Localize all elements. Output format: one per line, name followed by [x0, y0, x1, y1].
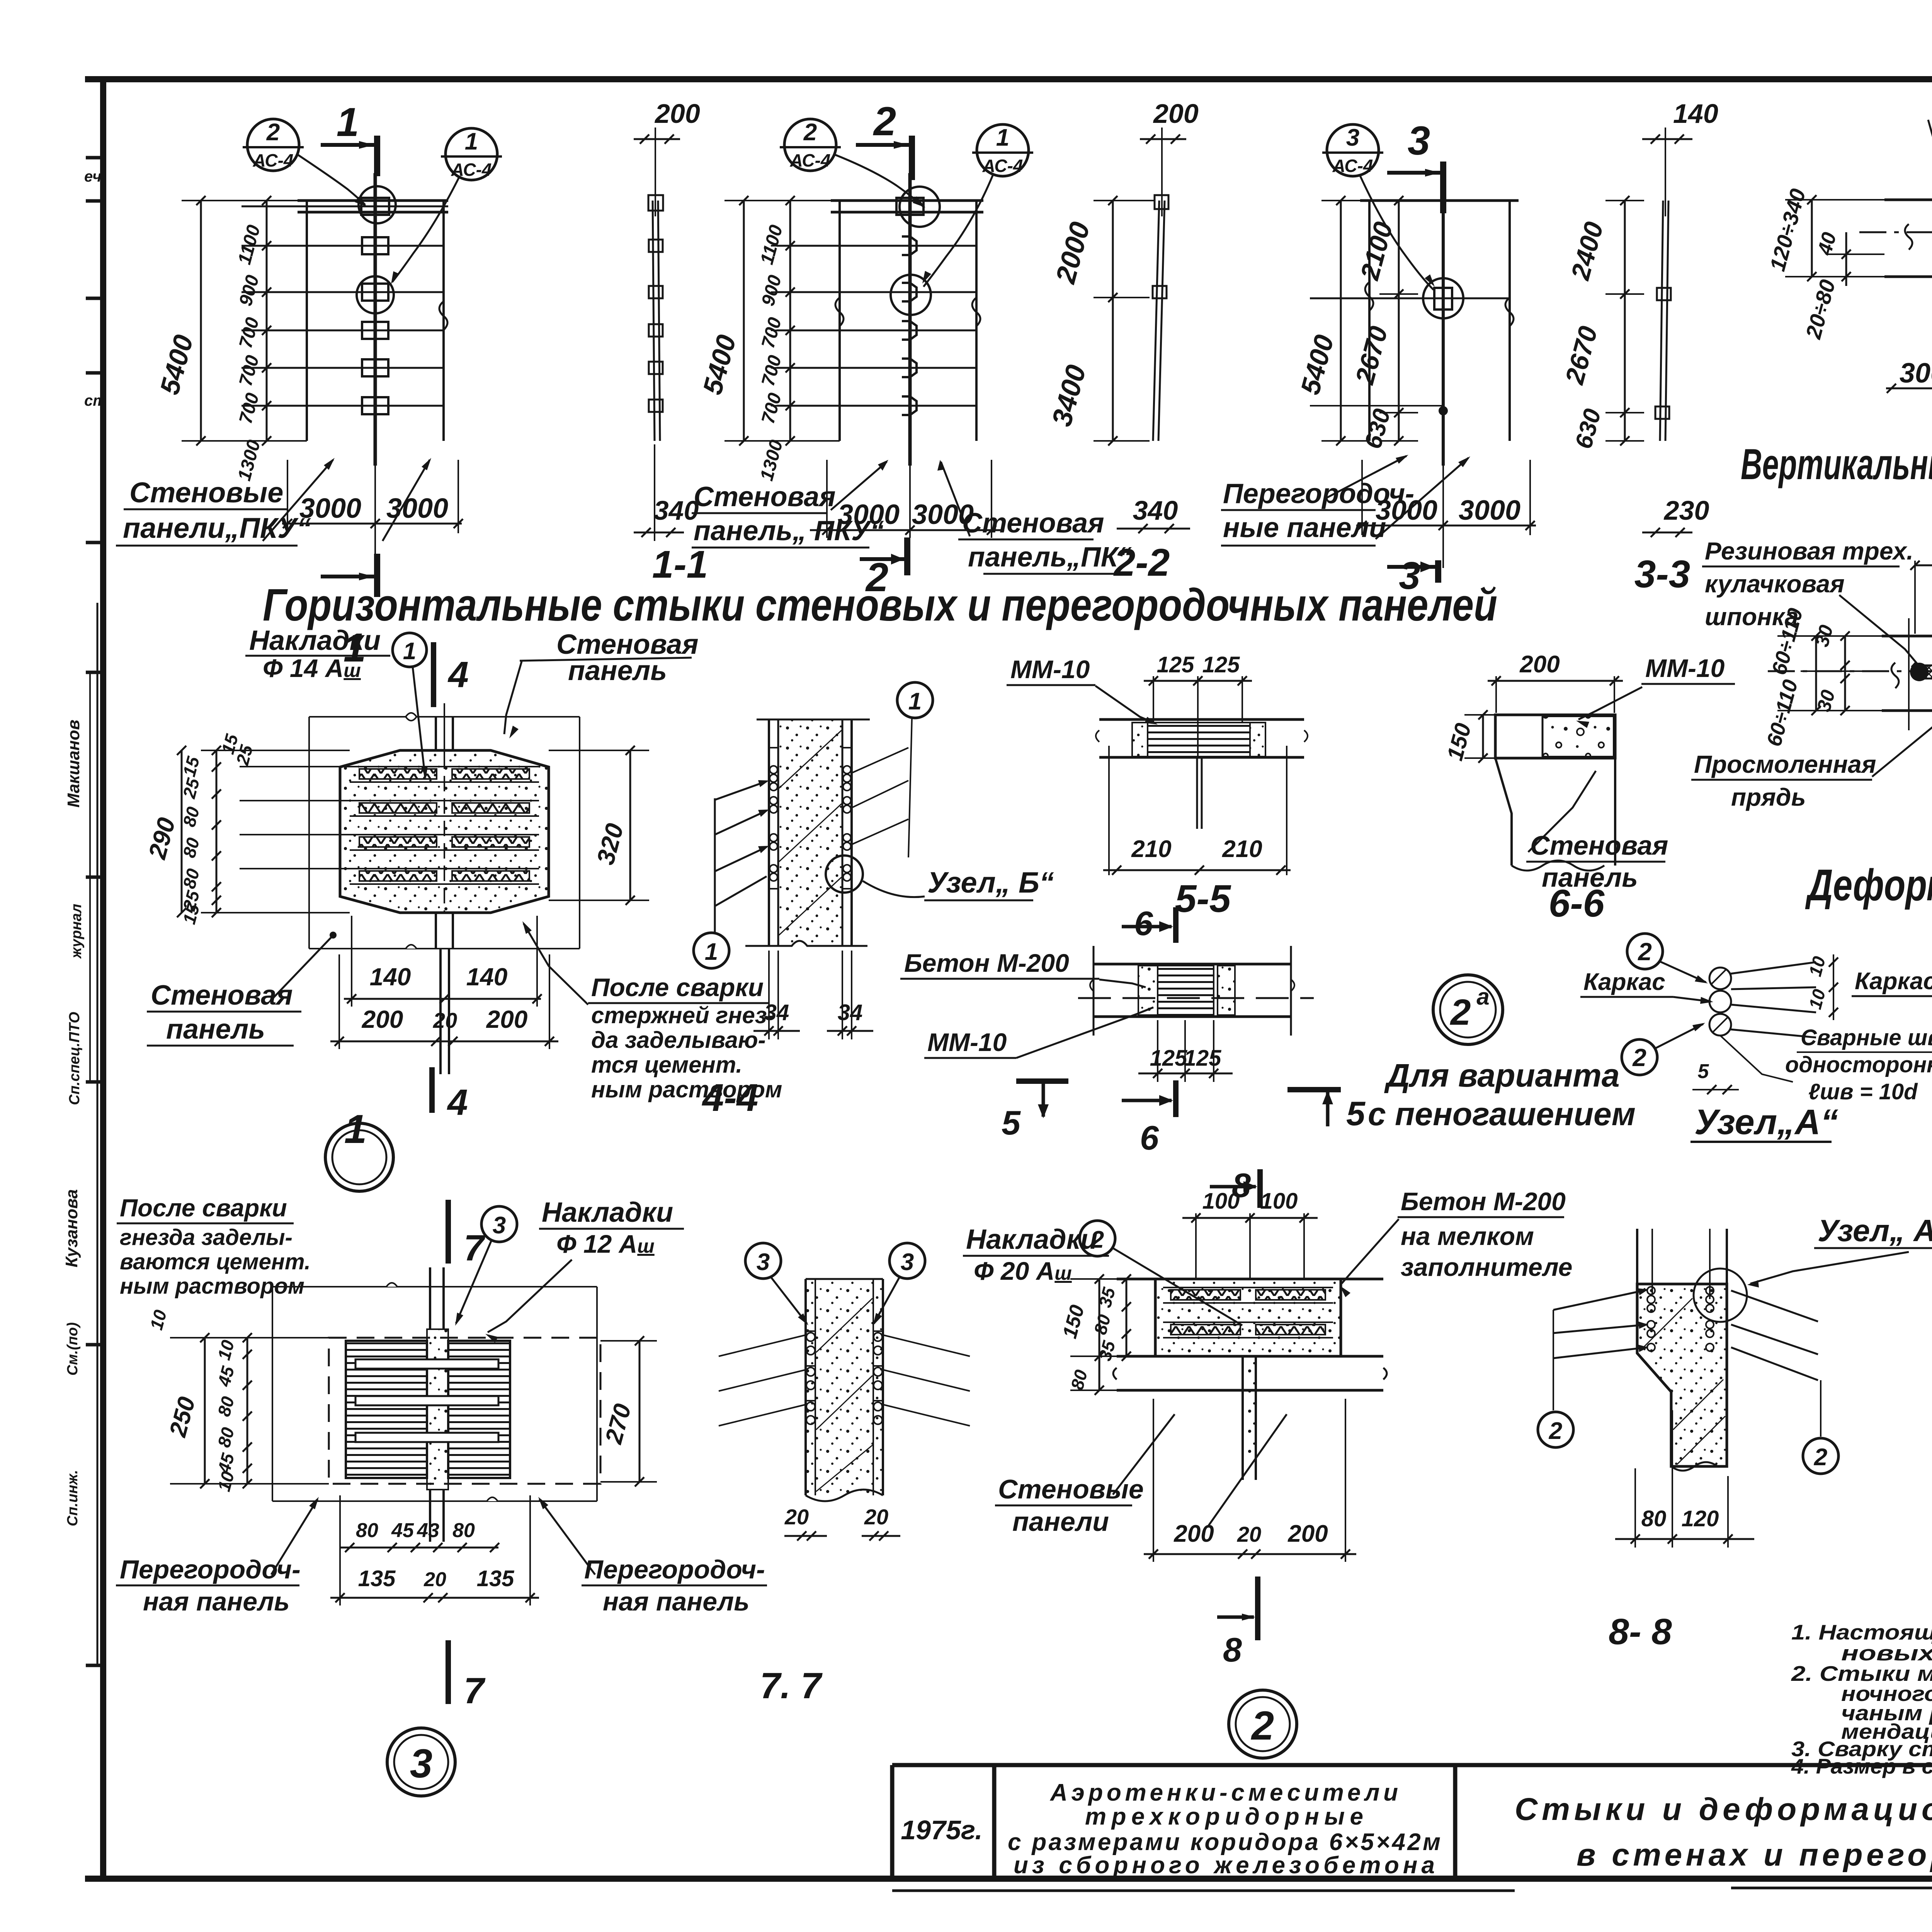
svg-text:АС-4: АС-4 [789, 150, 830, 170]
break squiggle deformation band [1891, 663, 1899, 688]
svg-text:135: 135 [358, 1566, 396, 1591]
svg-text:панель„ ПКУ“: панель„ ПКУ“ [694, 515, 884, 546]
rebar bars detail 3 [355, 1359, 498, 1369]
circled number 2 detail 2 [1229, 1690, 1297, 1758]
svg-text:1: 1 [403, 638, 416, 665]
dimension 135 20 135 detail 3 [330, 1495, 539, 1605]
svg-text:1: 1 [465, 128, 478, 155]
label partition panel left detail 3 [116, 1497, 319, 1616]
note after welding text detail 1 [522, 921, 782, 1102]
dimension 340 bottom section 2-2 [1117, 495, 1190, 533]
svg-text:1: 1 [705, 939, 718, 965]
svg-text:210: 210 [1222, 836, 1262, 862]
svg-text:ММ-10: ММ-10 [927, 1028, 1007, 1056]
dimension 250 deformation joint [1910, 529, 1932, 634]
svg-text:20: 20 [784, 1505, 809, 1529]
rebar circles, node A [1709, 968, 1731, 989]
svg-text:125: 125 [1184, 1046, 1222, 1071]
svg-text:125: 125 [1202, 652, 1240, 677]
detail circle at top joint [359, 186, 396, 223]
detail circle at second joint [357, 276, 394, 313]
section mark 7 top detail 3 [448, 1200, 486, 1269]
svg-text:Сп.спец.ПТО: Сп.спец.ПТО [66, 1012, 83, 1105]
svg-text:Вертикальные стыки стеновых и: Вертикальные стыки стеновых и перегородо… [1741, 440, 1932, 488]
notes list [1791, 1620, 1932, 1778]
svg-text:3: 3 [493, 1212, 506, 1239]
label Nakladki F14AIII [245, 625, 390, 682]
detail 6-6 partition joint plan [1495, 715, 1615, 871]
svg-text:135: 135 [477, 1566, 515, 1591]
svg-text:Стеновая: Стеновая [962, 508, 1104, 539]
hatched panel block detail 3 [346, 1329, 510, 1490]
svg-text:200: 200 [1153, 99, 1199, 129]
callout 2 left section 8-8 [1538, 1412, 1573, 1447]
svg-text:ММ-10: ММ-10 [1645, 654, 1725, 682]
svg-text:2: 2 [1251, 1703, 1274, 1748]
section 4-4 concrete strip [745, 719, 870, 946]
section mark 2 bottom [860, 537, 907, 600]
label tarred strand [1691, 698, 1932, 811]
dimension 125 125 plan [1138, 1020, 1233, 1082]
concrete M-200 joint plan [1078, 946, 1314, 1036]
svg-text:2: 2 [803, 119, 817, 146]
svg-text:ные панели: ные панели [1223, 512, 1386, 543]
dimension 290 detail 1 [181, 750, 183, 913]
dimension 340 bottom of section 1-1 [634, 444, 699, 541]
svg-text:5: 5 [1698, 1060, 1709, 1083]
section mark 5 left [1002, 1081, 1068, 1142]
dimension ladder 2100/2670/630 elevation 3 [1350, 196, 1418, 452]
svg-text:1. Настоящий чертеж рассматри: 1. Настоящий чертеж рассматривать совмес… [1791, 1620, 1932, 1644]
dimension 210 210 detail 5-5 [1103, 836, 1291, 875]
svg-text:20: 20 [423, 1568, 446, 1591]
section mark 5 right [1287, 1090, 1366, 1133]
svg-text:еч: еч [84, 168, 102, 185]
leader fans section 7-7 [719, 1335, 970, 1426]
svg-text:5: 5 [1002, 1104, 1021, 1142]
svg-text:8- 8: 8- 8 [1609, 1611, 1672, 1652]
detail circle second joint elevation 2 [891, 275, 931, 315]
svg-text:3: 3 [1399, 554, 1420, 597]
callout circle 2 lower, node A [1622, 1039, 1657, 1075]
dimension 3000+3000 elevation 3 [1356, 460, 1536, 568]
svg-text:кулачковая: кулачковая [1705, 570, 1845, 598]
deformation joint detail [1768, 618, 1932, 789]
dimension ladder 1300/700/700/700/900/1100, elevation 1 [234, 196, 286, 483]
dimension 3000+3000 elevation 2 [810, 460, 1004, 538]
upper joint neck detail 3 [429, 1267, 431, 1329]
detail circle top joint elevation 2 [900, 187, 940, 227]
break squiggle band left [1905, 224, 1912, 250]
svg-text:140: 140 [370, 963, 411, 991]
left stamp column rule [97, 603, 99, 1665]
svg-text:34: 34 [838, 1000, 863, 1025]
section mark 1 bottom [374, 554, 380, 597]
svg-text:20: 20 [864, 1505, 888, 1529]
svg-text:2: 2 [873, 99, 896, 144]
vertical joint detail 2 [1243, 1356, 1256, 1461]
section 1-1 strip [648, 195, 663, 441]
svg-text:45: 45 [391, 1519, 414, 1542]
break squiggle elevation 2 [835, 298, 844, 326]
svg-text:Накладки: Накладки [966, 1224, 1097, 1255]
svg-text:a: a [1476, 984, 1489, 1010]
left dimension ladder detail 1 [143, 731, 350, 926]
leader fan left section 4-4 [715, 780, 769, 932]
svg-text:АС-4: АС-4 [1332, 156, 1373, 176]
dimension 80 120 section 8-8 [1615, 1410, 1754, 1548]
svg-text:1-1: 1-1 [652, 543, 708, 586]
section mark 1 top [374, 136, 380, 176]
dimension ladder 2400/2670/630 section 3-3 [1560, 196, 1644, 452]
svg-text:Перегородоч-: Перегородоч- [1223, 478, 1414, 509]
svg-text:с размерами коридора 6×5×42м: с размерами коридора 6×5×42м [1008, 1829, 1440, 1855]
left dimension ladder detail 3 [146, 1308, 329, 1493]
svg-text:панели: панели [1012, 1507, 1109, 1537]
section mark 4 top detail 1 [434, 642, 469, 707]
callout circle 1 detail 1 [393, 633, 428, 779]
svg-text:Узел„А“: Узел„А“ [1694, 1102, 1838, 1142]
svg-text:тся цемент.: тся цемент. [591, 1052, 742, 1078]
svg-text:Перегородоч-: Перегородоч- [584, 1555, 765, 1584]
note after welding detail 3 [117, 1194, 311, 1299]
break squiggle right edge [439, 301, 447, 330]
panel joint keys elevation 2 [902, 236, 917, 255]
label wall panel top detail 1 [504, 629, 699, 738]
svg-text:2: 2 [1090, 1226, 1104, 1253]
label MM-10 plan [924, 1007, 1153, 1058]
svg-text:140: 140 [466, 963, 508, 991]
svg-text:3000: 3000 [1900, 358, 1932, 389]
dimensions 30/60-110 deformation joint [1762, 606, 1882, 749]
svg-text:односторонние: односторонние [1785, 1052, 1932, 1077]
weld plates on centerline, elevation 1 [362, 237, 388, 254]
leader fans section 8-8 [1553, 1288, 1821, 1437]
svg-text:80: 80 [1641, 1506, 1667, 1531]
svg-text:АС-4: АС-4 [982, 156, 1023, 176]
callout circle 3 top detail 3 [455, 1206, 517, 1326]
svg-text:ная панель: ная панель [603, 1587, 750, 1616]
svg-text:7. 7: 7. 7 [760, 1665, 823, 1706]
callout 3 right section 7-7 [873, 1243, 925, 1326]
left dims detail 2 [1058, 1274, 1155, 1395]
uzel A circle marker section 8-8 [1694, 1213, 1932, 1322]
section mark 7 bottom detail 3 [448, 1640, 486, 1711]
section 3-3 strip [1655, 201, 1671, 441]
svg-text:с пеногашением: с пеногашением [1368, 1096, 1636, 1132]
svg-text:6: 6 [1140, 1119, 1159, 1157]
dimension 200 20 200 detail 1 [330, 954, 558, 1049]
dimension 320 detail 1 [549, 746, 649, 905]
svg-text:34: 34 [764, 1000, 789, 1025]
label rubber three-lug waterstop [1702, 537, 1923, 671]
dimension 125 125 detail 5-5 [1144, 652, 1252, 757]
dimension 140 140 detail 1 [344, 916, 542, 1007]
svg-text:4-4: 4-4 [702, 1076, 759, 1119]
svg-text:2: 2 [865, 555, 888, 600]
callout circle 3/AC-4 elevation 3 [1322, 124, 1435, 290]
svg-text:АС-4: АС-4 [252, 150, 293, 170]
dimension ladder elevation 2 [757, 196, 810, 483]
svg-text:Кузанова: Кузанова [62, 1189, 81, 1267]
svg-text:340: 340 [1133, 495, 1178, 526]
svg-text:гнезда заделы-: гнезда заделы- [120, 1225, 293, 1250]
svg-text:ная панель: ная панель [143, 1587, 290, 1616]
joint plate elevation 3 [1434, 288, 1452, 310]
node B detail [1852, 931, 1932, 1142]
section mark 3 bottom [1435, 560, 1441, 583]
uzel B circle and label on section 4-4 [826, 855, 1054, 900]
svg-text:125: 125 [1150, 1046, 1188, 1071]
vertical joint detail, wall panels [1859, 195, 1932, 392]
lower joint neck detail 1 [435, 913, 437, 949]
svg-text:панель„ПК“: панель„ПК“ [968, 542, 1132, 573]
node A detail [1580, 934, 1932, 1142]
svg-text:3-3: 3-3 [1634, 553, 1690, 596]
dimension 2000/3400 ladder section 2-2 [1046, 196, 1155, 446]
panel elevation 1 (wall panels PKU) [241, 173, 448, 466]
svg-text:журнал: журнал [68, 904, 85, 959]
left stamp column [62, 168, 107, 1526]
detail 5-5 mortar joint plan [1096, 719, 1308, 875]
dimension 100 100 detail 2 [1182, 1189, 1318, 1279]
svg-text:2: 2 [266, 119, 280, 146]
lower joint neck detail 3 [429, 1490, 431, 1542]
panel elevation 3 (partition panels) [1310, 173, 1519, 466]
svg-text:1: 1 [908, 688, 922, 715]
label wall panels PKU [116, 458, 431, 546]
svg-text:Деформационные швы в стенах и: Деформационные швы в стенах и перегородк… [1805, 861, 1932, 910]
svg-text:Стеновая: Стеновая [1530, 830, 1668, 861]
circled number 1 detail 1 [325, 1107, 393, 1191]
svg-text:80: 80 [356, 1519, 378, 1542]
dimension 200 top section 2-2 [1140, 99, 1199, 216]
dimension 140 top section 3-3 [1642, 99, 1718, 216]
svg-text:200: 200 [654, 99, 700, 129]
svg-text:из сборного железобетона: из сборного железобетона [1014, 1852, 1435, 1879]
label MM-10 detail 6-6 [1576, 654, 1735, 728]
svg-text:Резиновая трех.: Резиновая трех. [1705, 537, 1913, 565]
svg-text:Макшанов: Макшанов [64, 719, 83, 808]
dimension 200 20 200 detail 2 [1144, 1399, 1356, 1562]
svg-text:3: 3 [1408, 118, 1430, 163]
outer thin lines detail 3 [272, 1283, 597, 1501]
svg-text:5: 5 [1346, 1094, 1366, 1133]
svg-text:См.(по): См.(по) [65, 1322, 81, 1376]
svg-text:Бетон М-200: Бетон М-200 [1401, 1187, 1566, 1216]
svg-text:прядь: прядь [1731, 783, 1806, 811]
dimension 5400 elevation 3 [1295, 196, 1369, 446]
svg-text:Накладки: Накладки [249, 625, 381, 656]
svg-text:Для варианта: Для варианта [1384, 1057, 1620, 1094]
svg-text:4: 4 [447, 654, 469, 695]
svg-text:Бетон М-200: Бетон М-200 [904, 949, 1069, 977]
svg-text:После сварки: После сварки [591, 973, 764, 1002]
section 2-2 strip [1153, 195, 1168, 441]
svg-text:120: 120 [1682, 1506, 1719, 1531]
dimension 150 detail 6-6 [1442, 710, 1495, 763]
svg-text:Каркас: Каркас [1855, 968, 1932, 995]
svg-text:2: 2 [1450, 992, 1471, 1033]
label wall panels, vertical joints [1928, 81, 1932, 198]
section mark 6 bottom [1122, 1080, 1176, 1157]
svg-text:210: 210 [1131, 836, 1171, 862]
label wall panel detail 6-6 [1526, 771, 1668, 893]
label MM-10 detail 5-5 [1007, 655, 1158, 724]
svg-text:20: 20 [433, 1008, 457, 1032]
panel elevation 2 (wall panels PKU + PK) [777, 173, 983, 466]
svg-text:125: 125 [1157, 652, 1195, 677]
label for foam variant [1368, 1057, 1636, 1132]
rebar circles section 4-4 [770, 766, 777, 774]
callout circle 2/AC-4 elevation 2 [780, 119, 925, 207]
section mark 8 top [1210, 1166, 1260, 1208]
svg-text:2: 2 [1638, 938, 1652, 966]
label partition panels elevation 3 [1221, 455, 1470, 546]
svg-text:Стеновые: Стеновые [998, 1474, 1144, 1504]
svg-text:Стеновые: Стеновые [129, 476, 283, 509]
label wall panel PK elevation 2 [937, 460, 1132, 574]
label wall panel bottom detail 1 [147, 932, 337, 1046]
svg-text:6: 6 [1134, 904, 1153, 942]
callout circle 2 upper, node A [1627, 934, 1663, 969]
svg-text:100: 100 [1260, 1189, 1298, 1214]
dimensions left of wall joint [1765, 186, 1884, 342]
svg-text:3000: 3000 [1459, 495, 1520, 526]
svg-text:200: 200 [1519, 651, 1560, 678]
dimension 20 20 section 7-7 [784, 1505, 900, 1541]
svg-text:Сп.инж.: Сп.инж. [65, 1470, 81, 1526]
title block [892, 1765, 1932, 1891]
callout 1 top right section 4-4 [852, 682, 933, 857]
label Nakladki F20AIII detail 2 [963, 1221, 1242, 1325]
svg-text:Узел„ А“: Узел„ А“ [1818, 1213, 1932, 1248]
upper panel tongue [435, 717, 437, 750]
section mark 4 bottom detail 1 [432, 1067, 468, 1123]
callout circle 1/AC-4 elevation 2 [922, 124, 1033, 287]
svg-text:8: 8 [1223, 1631, 1242, 1669]
svg-text:Накладки: Накладки [542, 1197, 673, 1228]
svg-text:3: 3 [1346, 124, 1359, 151]
svg-text:Стеновая: Стеновая [694, 481, 836, 512]
svg-text:4. Размер в скобках относится: 4. Размер в скобках относится к панелям … [1791, 1754, 1932, 1778]
svg-text:7: 7 [464, 1670, 486, 1711]
svg-text:230: 230 [1663, 495, 1709, 526]
dimension 3000+3000, elevation 1 [282, 460, 463, 568]
dimension 5400 elevation 2 [697, 196, 840, 446]
svg-text:1975г.: 1975г. [901, 1815, 983, 1845]
callout 2 right section 8-8 [1803, 1438, 1838, 1474]
section mark 6 top [1122, 904, 1176, 943]
svg-text:Просмоленная: Просмоленная [1694, 750, 1876, 778]
left stamp column rule short [89, 672, 91, 1082]
callout circle 2/AC-4 [243, 119, 367, 207]
dimension 270 detail 3 [600, 1336, 657, 1486]
break squiggle elevation 3 [1365, 282, 1373, 311]
svg-text:панель: панель [166, 1014, 265, 1045]
callout 3 left section 7-7 [745, 1243, 808, 1325]
dimension 200 detail 6-6 [1488, 651, 1623, 713]
dashed rectangle detail 3 [329, 1338, 600, 1484]
section mark 2 top [909, 136, 915, 180]
outer thin rectangle detail 1 [309, 716, 580, 718]
label concrete M-200 [900, 949, 1146, 987]
svg-text:200: 200 [486, 1005, 528, 1033]
svg-text:Сварные швы: Сварные швы [1801, 1025, 1932, 1050]
svg-text:АС-4: АС-4 [451, 160, 492, 180]
svg-text:80: 80 [452, 1519, 475, 1542]
circled 2a variant [1433, 975, 1503, 1044]
svg-text:20: 20 [1237, 1522, 1261, 1546]
svg-text:200: 200 [1287, 1520, 1328, 1547]
svg-text:1: 1 [337, 100, 359, 145]
section 8-8 partition over wall [1637, 1229, 1727, 1471]
svg-text:1: 1 [344, 1107, 367, 1152]
svg-text:3: 3 [410, 1741, 432, 1786]
weld plate bars detail 1 [240, 766, 539, 767]
dimension 3000 3000 wall joint [1886, 358, 1932, 393]
callout 1 bottom left section 4-4 [694, 933, 729, 968]
svg-text:ст: ст [84, 392, 107, 409]
svg-text:100: 100 [1202, 1189, 1240, 1214]
svg-text:да заделываю-: да заделываю- [591, 1027, 766, 1053]
svg-text:ваются цемент.: ваются цемент. [120, 1249, 311, 1274]
plate recess marks section 4-4 [769, 747, 778, 748]
svg-text:ℓшв = 10d: ℓшв = 10d [1808, 1079, 1918, 1104]
svg-text:ММ-10: ММ-10 [1010, 655, 1090, 684]
rebar circles section 8-8 [1647, 1287, 1655, 1294]
svg-text:Стеновая: Стеновая [151, 980, 293, 1011]
svg-text:2: 2 [1632, 1044, 1646, 1071]
section mark 8 bottom detail 2 [1217, 1577, 1258, 1669]
dimension 80 45 43 80 detail 3 [340, 1519, 499, 1552]
section mark 3 top [1440, 162, 1446, 213]
label partition panel right detail 3 [538, 1497, 767, 1616]
weld fan lines, node A [1730, 962, 1816, 974]
svg-text:6-6: 6-6 [1549, 882, 1605, 925]
svg-text:3: 3 [757, 1249, 770, 1276]
svg-text:5-5: 5-5 [1175, 877, 1231, 920]
svg-text:200: 200 [1173, 1520, 1214, 1547]
label wall panel PKU elevation 2 [692, 460, 888, 548]
svg-text:Узел„ Б“: Узел„ Б“ [927, 866, 1054, 899]
svg-text:на мелком: на мелком [1401, 1222, 1534, 1250]
svg-text:4: 4 [447, 1082, 468, 1123]
dimension 230 bottom section 3-3 [1642, 495, 1709, 537]
diagonal hatch lines section 4-4 [779, 730, 842, 788]
main block detail 2 [1113, 1279, 1387, 1480]
svg-text:2-2: 2-2 [1113, 541, 1170, 584]
title block texts [901, 1779, 1932, 1879]
svg-text:После сварки: После сварки [120, 1194, 287, 1222]
svg-text:340: 340 [654, 495, 699, 526]
svg-text:1: 1 [996, 124, 1009, 151]
label Nakladki F12AIII detail 3 [485, 1197, 684, 1343]
circled number 3 detail 3 [387, 1728, 455, 1796]
svg-text:2: 2 [1814, 1444, 1827, 1471]
svg-text:2: 2 [1549, 1418, 1562, 1444]
dimension 200 top of section 1-1 [634, 99, 700, 216]
svg-text:43: 43 [417, 1519, 439, 1542]
rebar circles section 7-7 [806, 1333, 815, 1341]
label concrete M200 fine aggregate detail 2 [1340, 1187, 1572, 1297]
rubber waterstop key (dumbbell) [1919, 665, 1932, 679]
label wall panels detail 2 [995, 1414, 1287, 1537]
detail 1: horizontal joint of wall panels [240, 703, 580, 1074]
svg-text:стержней гнез-: стержней гнез- [591, 1002, 775, 1028]
callout circle 1/AC-4 [391, 128, 502, 284]
svg-text:3: 3 [901, 1249, 914, 1276]
